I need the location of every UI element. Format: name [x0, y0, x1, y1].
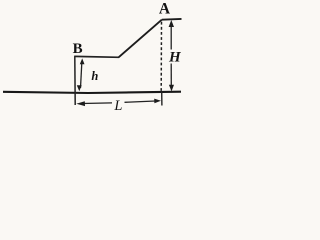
svg-text:B: B	[73, 41, 83, 57]
step top surface	[74, 55, 119, 58]
inclined ramp	[119, 20, 162, 58]
H dimension shaft lower	[170, 64, 172, 88]
svg-text:A: A	[159, 1, 171, 18]
ground line	[3, 92, 181, 93]
L dimension line right segment with right arrowhead	[125, 101, 156, 102]
h dimension shaft	[81, 61, 82, 88]
dashed vertical drop line below A	[160, 22, 162, 92]
svg-text:H: H	[168, 50, 182, 66]
peak flat top at A	[162, 18, 182, 21]
H dimension down arrowhead	[169, 85, 174, 92]
h dimension up arrowhead	[80, 58, 85, 64]
step face wall B (also L dimension left extension tick)	[74, 56, 76, 105]
h dimension down arrowhead	[77, 85, 82, 91]
H dimension up arrowhead	[169, 20, 174, 27]
L dimension line left segment with left arrowhead	[82, 102, 112, 105]
svg-text:L: L	[113, 98, 122, 114]
L dimension right extension tick	[161, 92, 163, 106]
H dimension shaft upper	[170, 24, 172, 50]
svg-text:h: h	[91, 69, 98, 83]
